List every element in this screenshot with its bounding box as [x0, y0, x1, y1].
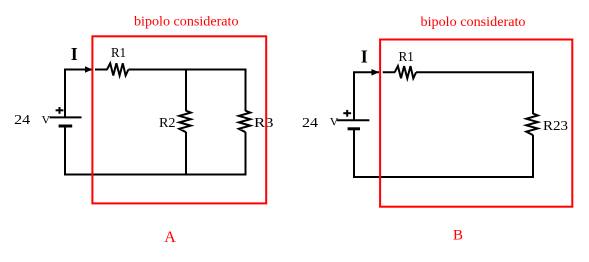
title 'bipolo considerato' (A)	[134, 14, 239, 29]
wire: right branch bottom (B)	[532, 135, 534, 178]
current arrow I (A)	[85, 66, 93, 73]
red box 'bipolo considerato' (B)	[380, 40, 572, 207]
wire: right branch bottom (A)	[245, 132, 247, 176]
wire: right branch top (B)	[532, 71, 534, 114]
wire: battery positive terminal up to top-left corner (B)	[353, 72, 355, 120]
wire: R2 branch top (A)	[185, 69, 187, 112]
svg-text:B: B	[453, 227, 463, 243]
svg-text:A: A	[164, 229, 176, 246]
title 'bipolo considerato' (B)	[421, 15, 526, 30]
wire: right branch top (A)	[245, 69, 247, 112]
svg-text:V: V	[330, 115, 339, 129]
wire: battery negative terminal down to bottom rail (B)	[353, 129, 355, 178]
svg-text:R23: R23	[543, 119, 568, 134]
current arrow I (B)	[372, 69, 380, 76]
label R1 (B)	[399, 50, 414, 65]
resistor R3 zigzag (A)	[239, 111, 251, 133]
resistor R2 zigzag (A)	[179, 111, 191, 133]
svg-text:I: I	[71, 44, 78, 64]
voltage source V1 value label '24' (A)	[14, 113, 30, 128]
voltage source V2 plus sign (B)	[343, 110, 351, 117]
battery V2 bottom plate (B)	[348, 127, 360, 130]
label R3 (A)	[254, 116, 274, 131]
voltage source V1 unit label 'V' (A)	[42, 113, 51, 127]
resistor R23 zigzag (B)	[526, 114, 538, 136]
wire: battery positive terminal up to top-left corner (A)	[64, 70, 66, 118]
battery V1 top plate (A)	[50, 116, 82, 118]
label R2 (A)	[159, 116, 176, 131]
svg-text:R2: R2	[159, 116, 176, 131]
wire: top rail right segment (A)	[128, 69, 246, 71]
label R23 (B)	[543, 119, 568, 134]
wire: R2 branch bottom (A)	[185, 132, 187, 176]
svg-text:24: 24	[14, 113, 30, 128]
voltage source V2 unit label 'V' (B)	[330, 115, 339, 129]
svg-text:V: V	[42, 113, 51, 127]
battery V1 bottom plate (A)	[59, 125, 73, 128]
resistor R1 zigzag (A)	[107, 63, 128, 75]
wire: bottom rail (A)	[64, 174, 247, 176]
svg-text:R1: R1	[399, 50, 414, 65]
wire: battery negative terminal down to bottom rail (A)	[64, 126, 66, 176]
label R1 (A)	[111, 46, 126, 61]
wire: top rail left segment with current arrow (A)	[64, 69, 108, 71]
label I (B)	[361, 47, 368, 67]
wire: top rail left segment with current arrow (B)	[353, 71, 395, 73]
wire: top rail right segment (B)	[416, 71, 534, 73]
resistor R1 zigzag (B)	[395, 66, 416, 78]
figure label B	[453, 227, 463, 243]
voltage source V2 value label '24' (B)	[302, 116, 318, 131]
svg-text:24: 24	[302, 116, 318, 131]
voltage source V1 plus sign (A)	[56, 107, 64, 114]
svg-text:R1: R1	[111, 46, 126, 61]
svg-text:bipolo considerato: bipolo considerato	[134, 14, 239, 29]
svg-text:R3: R3	[254, 116, 274, 131]
wire: bottom rail (B)	[353, 176, 534, 178]
label I (A)	[71, 44, 78, 64]
red box 'bipolo considerato' (A)	[92, 36, 266, 203]
figure label A	[164, 229, 176, 246]
svg-text:I: I	[361, 47, 368, 67]
svg-text:bipolo considerato: bipolo considerato	[421, 15, 526, 30]
battery V2 top plate (B)	[337, 119, 370, 121]
